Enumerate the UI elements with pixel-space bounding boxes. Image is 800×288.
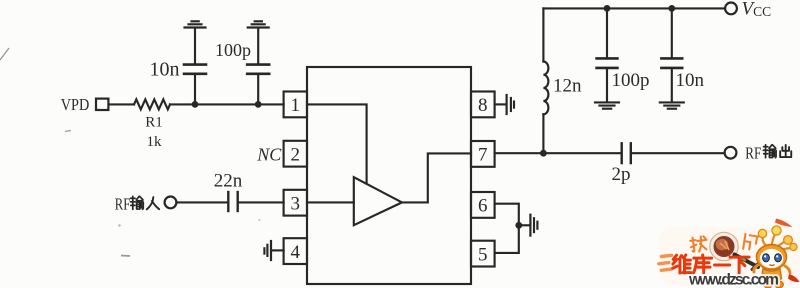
svg-text:6: 6: [478, 196, 488, 217]
svg-text:4: 4: [291, 242, 301, 263]
svg-text:8: 8: [478, 95, 488, 116]
svg-text:3: 3: [291, 193, 301, 214]
svg-text:RF: RF: [745, 143, 761, 162]
svg-text:1: 1: [291, 95, 301, 116]
svg-text:12n: 12n: [553, 76, 582, 97]
svg-text:1k: 1k: [147, 134, 163, 150]
svg-text:VPD: VPD: [61, 95, 90, 114]
svg-text:R1: R1: [145, 115, 163, 131]
svg-text:2p: 2p: [612, 164, 631, 185]
svg-text:7: 7: [478, 145, 488, 166]
svg-text:100p: 100p: [612, 70, 650, 91]
svg-text:10n: 10n: [150, 59, 180, 81]
svg-text:22n: 22n: [214, 171, 243, 192]
svg-text:5: 5: [478, 244, 488, 265]
svg-text:www.dzsc.com: www.dzsc.com: [688, 272, 779, 288]
svg-text:2: 2: [291, 144, 301, 165]
svg-text:10n: 10n: [676, 70, 705, 91]
svg-text:100p: 100p: [215, 40, 251, 60]
svg-text:RF: RF: [115, 195, 131, 214]
svg-text:NC: NC: [256, 145, 282, 165]
